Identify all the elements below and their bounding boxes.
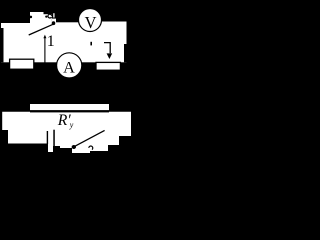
terminal wire 2 [53,130,55,147]
current arrowhead [43,35,46,39]
right dark margin [124,44,134,62]
rheostat resistance bar [30,110,109,112]
white strip above rheostat bar [30,104,109,112]
switch S blade [29,24,53,35]
left dark margin [0,28,4,62]
switch S handle knob [52,21,56,25]
voltmeter terminal stub [90,42,92,46]
lower switch blade [74,130,105,146]
white pocket right of switch hook [52,19,56,22]
rheostat slider arrowhead [107,53,113,59]
svg-text:y: y [69,121,74,130]
white pocket under switch hook [44,14,52,21]
switch S hook contact curl [48,14,52,18]
svg-text:1: 1 [47,33,55,50]
terminal wire 1 [47,131,48,144]
bottom panel (white apparatus area) [2,112,131,153]
lower switch pivot blob [72,145,76,149]
switch S hook contact dot [45,16,47,18]
battery box B (bottom-left) [10,59,34,69]
svg-text:V: V [85,13,97,32]
black band lower edge right of switch [56,21,79,24]
voltmeter V [79,9,102,32]
ammeter A [57,53,82,78]
lower switch handle loop [89,146,93,150]
svg-text:A: A [63,58,75,76]
band speck near pocket edge [30,16,33,19]
resistor box R (bottom-right) [96,62,120,70]
rheostat slider arm wire [104,43,110,54]
white slit in band (contact clip) [53,13,54,17]
top panel (white apparatus area) [1,22,127,63]
current arrow wire [44,38,45,64]
black band lower edge at left [0,22,30,24]
white pocket left of switch hook [30,12,44,22]
